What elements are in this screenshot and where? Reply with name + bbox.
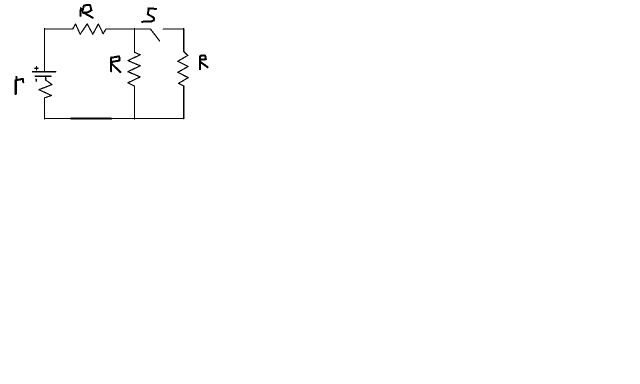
wire top-right horizontal segment — [163, 28, 184, 30]
battery V1 top plate — [33, 71, 56, 73]
wire right branch bottom lead — [183, 86, 185, 119]
label r (internal resistance) — [16, 77, 23, 82]
wire top middle segment — [106, 28, 151, 30]
battery V1 bottom plate — [35, 75, 51, 77]
wire middle branch top lead — [133, 29, 135, 53]
resistor R3 (right) zigzag — [178, 52, 188, 87]
wire left vertical (battery bottom lead) — [44, 98, 46, 119]
wire right branch top lead — [183, 29, 185, 52]
wire left vertical (battery top lead) — [44, 29, 46, 72]
label R (right resistor) — [199, 56, 201, 69]
label S (switch) — [142, 8, 156, 21]
resistor R2 (middle) zigzag — [128, 52, 140, 86]
wire bottom horizontal — [45, 117, 184, 119]
battery V1 minus tick — [35, 79, 37, 81]
battery V1 plus sign — [35, 67, 38, 70]
resistor R1 (top) zigzag — [73, 24, 106, 34]
wire top-left horizontal segment — [45, 28, 73, 30]
resistor r (internal) zigzag — [39, 78, 52, 98]
switch S blade — [151, 30, 160, 41]
label R (top resistor) — [80, 8, 82, 16]
label R (middle resistor) — [110, 58, 112, 72]
wire bottom thick segment — [71, 118, 111, 120]
wire middle branch bottom lead — [133, 86, 135, 119]
